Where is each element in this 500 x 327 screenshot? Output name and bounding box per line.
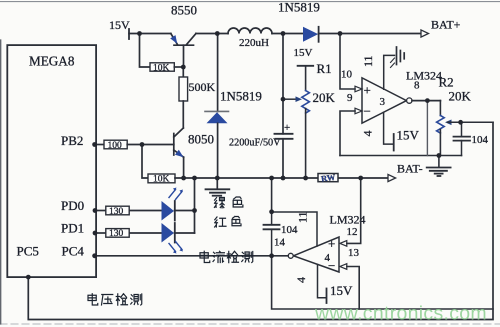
svg-text:2200uF/50V: 2200uF/50V: [229, 138, 281, 149]
wire 10K to base node: [174, 66, 183, 68]
wire rail to diode: [272, 33, 303, 35]
svg-text:PD1: PD1: [61, 221, 84, 236]
ground (rotated earth, op-amp U1 pin11): [397, 47, 405, 65]
frame bottom border: [0, 323, 500, 325]
node rail/pin10: [338, 31, 343, 36]
wire down to 10K lower: [142, 145, 148, 179]
svg-text:BAT-: BAT-: [397, 162, 423, 176]
resistor RW (shunt in BAT- rail): [318, 174, 338, 182]
node U1B out/C3: [269, 253, 274, 258]
node BAT- arrow: [388, 174, 396, 181]
svg-text:−: −: [364, 104, 371, 119]
label 电压检测 (voltage sense): [88, 294, 142, 305]
node rail/10K: [137, 31, 142, 36]
svg-text:+: +: [328, 236, 335, 251]
svg-text:104: 104: [472, 134, 489, 146]
svg-text:20K: 20K: [449, 89, 472, 104]
svg-text:8: 8: [414, 80, 420, 92]
svg-text:R2: R2: [439, 75, 454, 90]
node BAT+ arrow: [421, 30, 429, 37]
node Q1 base/R4: [181, 65, 186, 70]
svg-text:130: 130: [109, 229, 124, 239]
svg-text:LM324: LM324: [406, 69, 442, 83]
svg-text:4: 4: [325, 252, 331, 264]
wire 104 node to rail: [271, 178, 273, 212]
svg-text:4: 4: [361, 131, 375, 137]
svg-text:www.cntronics.com: www.cntronics.com: [314, 303, 487, 325]
svg-text:11: 11: [361, 55, 375, 67]
ground (signal, under shunt node): [206, 178, 230, 196]
svg-text:BAT+: BAT+: [431, 18, 461, 32]
svg-text:15V: 15V: [109, 18, 130, 32]
wire output to feedback: [426, 101, 428, 156]
resistor R3 10K (upper): [150, 63, 174, 71]
node R2 bottom/gnd: [437, 153, 442, 158]
frame top border: [0, 1, 500, 3]
svg-text:15V: 15V: [294, 47, 313, 59]
wire pin9 feedback: [340, 111, 355, 156]
wire LED common cathode column: [194, 178, 196, 233]
wire 100 to 8050 base: [127, 144, 174, 146]
node 红色 (red) label: [215, 217, 226, 227]
wire pin4 op2 to 15V: [318, 265, 326, 298]
wire top rail middle: [196, 33, 228, 35]
svg-text:3: 3: [380, 96, 386, 108]
node gnd rail/R1: [303, 176, 308, 181]
svg-text:8050: 8050: [188, 132, 214, 147]
node gnd rail/pin12: [358, 176, 363, 181]
R2 wiper arrow and wire: [445, 120, 452, 126]
node Q2 base/R6: [140, 142, 145, 147]
svg-text:PC5: PC5: [17, 244, 39, 259]
svg-text:1N5819: 1N5819: [220, 89, 262, 104]
wire pin4 to 15V: [384, 112, 394, 144]
15V terminal (op-amp U1B): [326, 289, 328, 304]
svg-text:11: 11: [296, 211, 310, 223]
wire 500K to 8050 collector: [182, 101, 184, 128]
pin 9 input arrow: [355, 108, 362, 114]
wire PB2 row: [95, 144, 104, 146]
15V supply terminal (top left): [128, 29, 130, 39]
svg-text:10K: 10K: [153, 63, 170, 73]
wire pin11 to BAT- rail via 104 node: [272, 212, 317, 246]
svg-text:10: 10: [341, 69, 353, 81]
node gnd rail/C1: [281, 176, 286, 181]
svg-text:20K: 20K: [313, 90, 336, 105]
wire ground row (BAT- rail): [175, 177, 388, 179]
LED D3 emission arrows: [169, 190, 182, 200]
pin 10 input arrow: [355, 86, 362, 92]
svg-text:RW: RW: [320, 172, 336, 184]
wire bottom feedback line: [272, 256, 493, 309]
wire pin12 from BAT- rail: [347, 178, 361, 243]
svg-text:13: 13: [348, 247, 360, 259]
node PB2: [92, 142, 97, 147]
svg-text:1N5819: 1N5819: [278, 0, 320, 15]
wire base node to 500K: [182, 67, 184, 77]
node rail/D1: [215, 31, 220, 36]
svg-text:MEGA8: MEGA8: [29, 54, 75, 69]
label 电流检测 (current sense): [200, 251, 253, 262]
frame left border: [0, 40, 2, 324]
svg-text:R1: R1: [317, 61, 332, 76]
wire rail right segment: [319, 33, 421, 35]
svg-text:130: 130: [109, 207, 124, 217]
node gnd rail/D1: [215, 176, 220, 181]
LED D3 green: [129, 210, 161, 212]
node rail/C1: [281, 31, 286, 36]
node LED green cathode: [192, 208, 197, 213]
LED D4 emission arrows: [169, 242, 182, 252]
svg-text:PC4: PC4: [62, 244, 85, 259]
svg-text:12: 12: [347, 226, 358, 238]
node PC4: [92, 253, 97, 258]
svg-text:14: 14: [274, 237, 286, 249]
LED D4 red: [129, 232, 161, 234]
node PD0: [93, 208, 98, 213]
node LED column: [192, 176, 197, 181]
svg-text:+: +: [284, 122, 290, 134]
svg-text:9: 9: [347, 92, 353, 104]
svg-text:220uH: 220uH: [239, 37, 269, 49]
svg-text:500K: 500K: [189, 80, 216, 94]
svg-text:PB2: PB2: [61, 133, 83, 148]
wire pin11 to ground: [384, 55, 395, 89]
node R2 wiper/C2: [458, 120, 463, 125]
15V terminal (op-amp U1): [393, 134, 395, 151]
resistor R4 500K: [179, 77, 188, 101]
resistor R7 130: [106, 206, 129, 215]
node 绿色 (green) label: [214, 198, 224, 208]
ground (signal, R2 bottom / BAT-): [427, 156, 451, 177]
svg-text:100: 100: [108, 141, 123, 151]
wire 10K upper branch: [140, 34, 151, 68]
wire PC5 voltage sense line: [28, 122, 493, 319]
node C1/R1 wiper: [281, 97, 286, 102]
pin 12 input arrow: [340, 241, 347, 247]
wire U1B output to PC4: [95, 255, 288, 257]
svg-text:10K: 10K: [153, 175, 170, 185]
svg-text:15V: 15V: [330, 283, 353, 298]
node PC5: [26, 275, 31, 280]
wire pin10 from BAT+ rail: [340, 34, 355, 90]
svg-text:4: 4: [294, 277, 308, 283]
inductor L1 220uH: [228, 28, 272, 33]
wire PD1 row: [95, 232, 106, 234]
svg-text:+: +: [364, 83, 371, 98]
wire R1 wiper to cap node: [283, 98, 296, 100]
pin 13 input arrow: [340, 264, 347, 270]
node PD1: [93, 231, 98, 236]
resistor R6 10K (lower): [148, 174, 175, 183]
svg-text:104: 104: [281, 224, 298, 236]
svg-text:PD0: PD0: [61, 198, 84, 213]
svg-text:8550: 8550: [171, 3, 197, 18]
wire feedback line: [340, 155, 462, 157]
MEGA8 IC box U2: [7, 45, 96, 277]
wire top rail left segment: [129, 33, 171, 35]
resistor R8 130: [106, 229, 129, 238]
node U1 out: [425, 98, 430, 103]
resistor R5 100: [104, 140, 127, 149]
wire PD0 row: [95, 210, 106, 212]
node Q2 emitter: [181, 176, 186, 181]
svg-text:15V: 15V: [397, 128, 420, 143]
node gnd rail/C3: [269, 176, 274, 181]
node pin11/C3: [269, 209, 274, 214]
wire U1 output: [412, 100, 440, 102]
wire pin13 to bottom line: [347, 267, 359, 310]
